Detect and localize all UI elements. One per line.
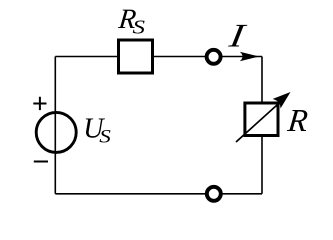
variable resistor R: diagonal arrowhead — [273, 92, 291, 109]
svg-text:R: R — [285, 102, 310, 138]
label R — [285, 102, 310, 138]
voltage source minus sign — [34, 161, 48, 163]
current I arrowhead — [240, 52, 259, 61]
node terminal (top) — [207, 50, 221, 64]
variable resistor R (box) — [245, 103, 278, 136]
variable resistor R: diagonal arrow shaft — [236, 98, 285, 142]
wire: bottom rail — [55, 193, 262, 195]
wire: right vertical rail — [261, 57, 263, 194]
node terminal (bottom) — [207, 187, 221, 201]
label R_S — [116, 4, 137, 35]
wire: left vertical rail — [54, 57, 56, 194]
resistor R_S (box) — [119, 40, 153, 73]
voltage source U_S (circle) — [36, 112, 76, 152]
svg-text:S: S — [133, 16, 145, 38]
wire: top rail — [55, 56, 262, 58]
label I — [226, 18, 249, 54]
svg-text:S: S — [99, 126, 111, 148]
voltage source plus sign — [33, 97, 46, 110]
